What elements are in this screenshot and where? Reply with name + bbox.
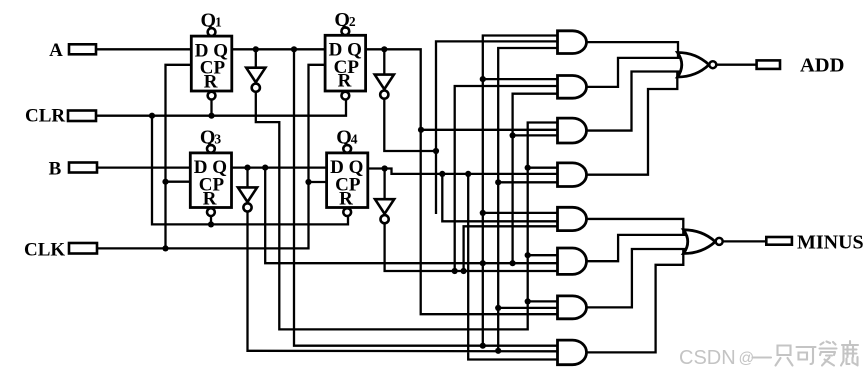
svg-text:Q: Q [200,126,216,148]
svg-text:Q: Q [334,9,350,31]
svg-text:B: B [49,158,62,179]
svg-text:4: 4 [351,132,358,147]
svg-text:R: R [339,188,353,209]
svg-text:@: @ [739,350,755,367]
svg-text:Q: Q [201,10,217,32]
svg-text:CLR: CLR [25,106,65,127]
svg-text:3: 3 [214,132,221,147]
svg-text:R: R [338,71,352,92]
svg-text:1: 1 [215,15,222,30]
svg-text:MINUS: MINUS [797,232,864,254]
svg-text:CSDN: CSDN [679,347,736,369]
svg-text:2: 2 [349,14,356,29]
svg-text:A: A [49,40,63,61]
svg-text:R: R [204,72,218,93]
svg-text:Q: Q [336,126,352,148]
svg-text:R: R [203,188,217,209]
svg-text:CLK: CLK [24,240,65,261]
svg-text:ADD: ADD [800,54,844,76]
